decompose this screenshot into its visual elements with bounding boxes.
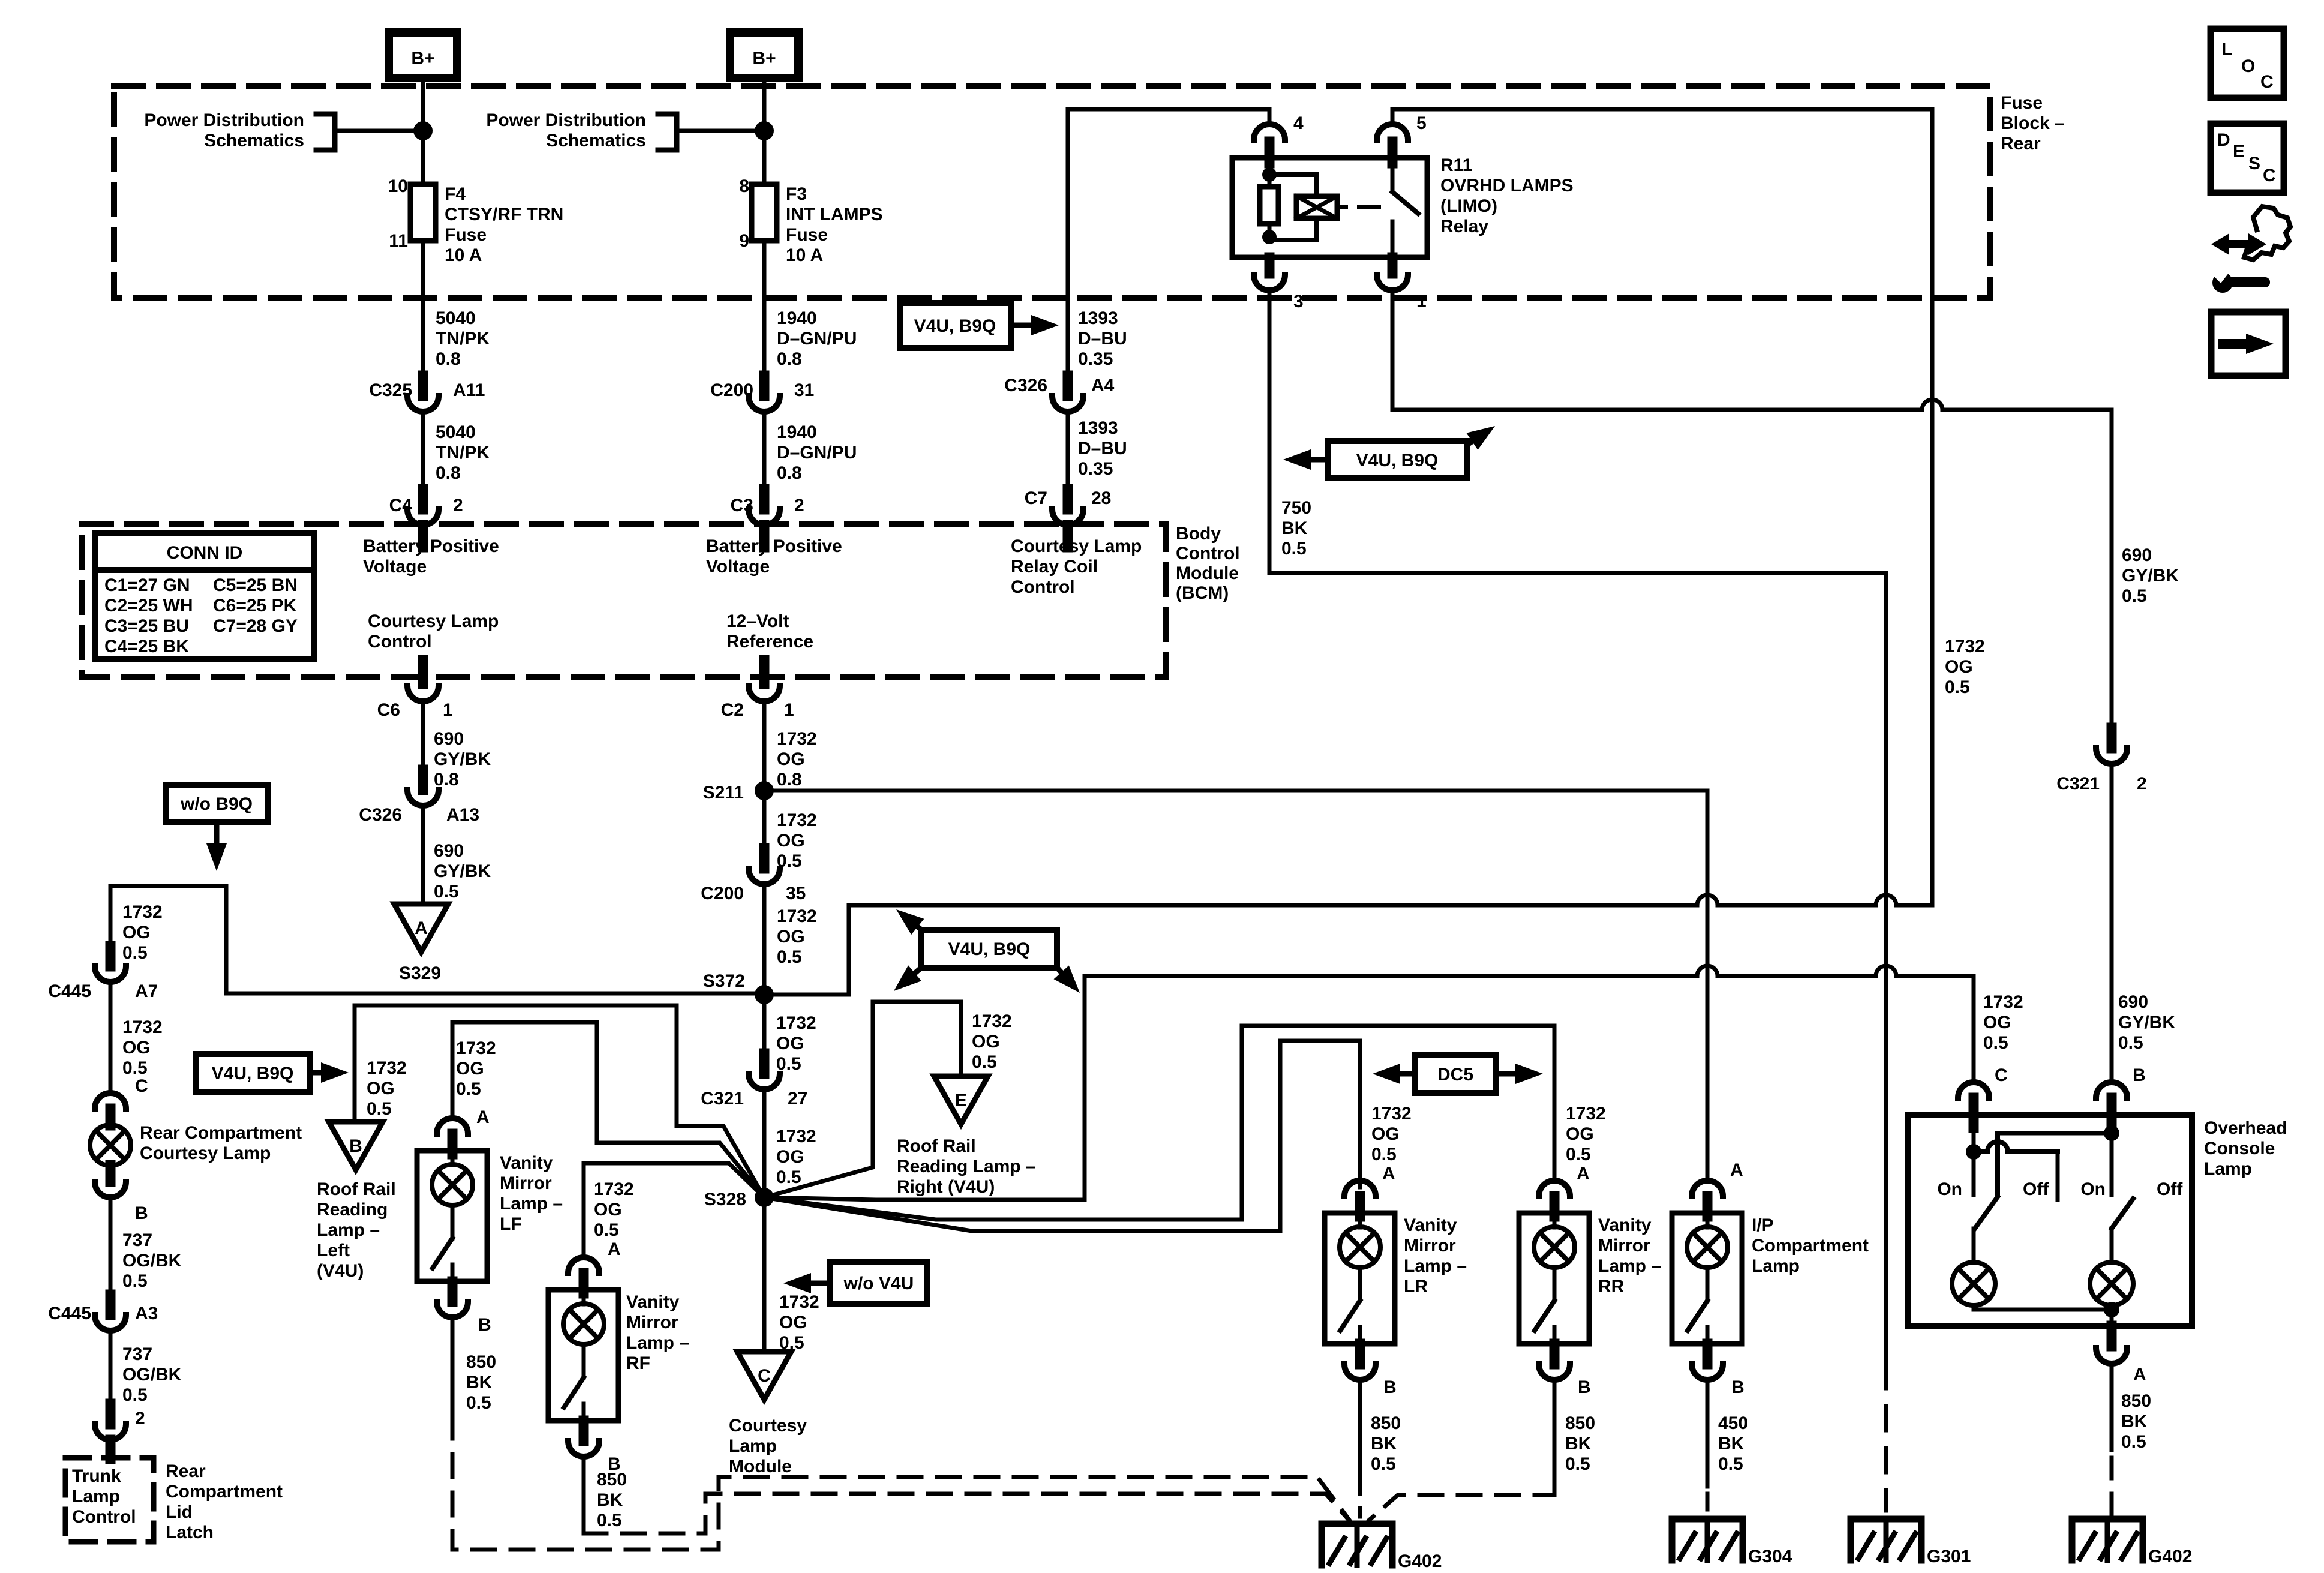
svg-text:850: 850 xyxy=(2121,1391,2151,1411)
page reference triangle B xyxy=(329,1122,383,1170)
wire 1732 OG 0.5 C321-S328 xyxy=(764,1089,816,1197)
svg-text:0.5: 0.5 xyxy=(1371,1145,1397,1164)
wire label I/P lamp pin A xyxy=(1730,1160,1743,1180)
svg-text:690: 690 xyxy=(434,841,464,861)
wire 1732 OG 0.5 C200-S372 xyxy=(764,884,817,995)
svg-text:C: C xyxy=(2260,72,2274,92)
svg-text:OG: OG xyxy=(456,1059,484,1079)
wire 1940 D-GN/PU 0.8 lower xyxy=(764,412,857,489)
BCM pin labels xyxy=(363,536,1142,652)
svg-text:0.5: 0.5 xyxy=(1281,539,1307,559)
svg-text:C321: C321 xyxy=(701,1089,744,1109)
svg-text:Reference: Reference xyxy=(726,632,813,652)
icon diagnostic wrench xyxy=(2211,206,2290,293)
wire S329 bus xyxy=(226,992,764,996)
roof rail reading lamp left label xyxy=(317,1179,396,1281)
wire label 1732 OG 0.5 vanity LR xyxy=(1371,1104,1412,1184)
console switch 2 xyxy=(2080,1179,2183,1262)
tag w/o V4U xyxy=(783,1262,927,1304)
svg-text:0.5: 0.5 xyxy=(1566,1145,1591,1164)
svg-text:850: 850 xyxy=(1371,1413,1401,1433)
svg-text:737: 737 xyxy=(122,1230,152,1250)
connector C445 pin A7 xyxy=(48,946,158,1001)
svg-text:35: 35 xyxy=(786,884,806,903)
svg-text:Module: Module xyxy=(729,1457,792,1476)
svg-text:5: 5 xyxy=(1416,113,1427,133)
svg-text:Schematics: Schematics xyxy=(204,131,304,151)
svg-text:1732: 1732 xyxy=(122,902,163,922)
svg-text:0.8: 0.8 xyxy=(777,463,802,483)
svg-text:Roof Rail: Roof Rail xyxy=(317,1179,396,1199)
svg-text:S329: S329 xyxy=(399,963,441,983)
svg-text:0.8: 0.8 xyxy=(436,349,461,369)
svg-text:C6: C6 xyxy=(377,700,400,720)
svg-text:A: A xyxy=(1382,1164,1395,1184)
svg-text:0.35: 0.35 xyxy=(1078,459,1113,479)
connector vanity RF pin B xyxy=(568,1421,621,1474)
ground G402 left xyxy=(1322,1524,1442,1571)
connector vanity RR pin B xyxy=(1539,1344,1591,1397)
svg-text:LR: LR xyxy=(1404,1277,1428,1296)
svg-text:Mirror: Mirror xyxy=(500,1173,552,1193)
svg-text:850: 850 xyxy=(466,1352,496,1372)
wire S328 to roof rail reading lamp right xyxy=(764,1002,1012,1197)
svg-text:Courtesy Lamp: Courtesy Lamp xyxy=(368,611,499,631)
svg-text:12–Volt: 12–Volt xyxy=(726,611,789,631)
wire 1732 OG S328 to vanity mirror LF xyxy=(452,1022,764,1197)
svg-text:0.5: 0.5 xyxy=(594,1220,619,1240)
connector C326 pin A13 xyxy=(359,770,479,825)
page reference triangle A xyxy=(394,904,448,952)
svg-text:A: A xyxy=(608,1239,621,1259)
svg-text:0.5: 0.5 xyxy=(466,1393,491,1413)
console pin B xyxy=(2096,1065,2146,1128)
svg-text:0.5: 0.5 xyxy=(776,1167,801,1187)
connector C321 pin 27 xyxy=(701,1053,807,1109)
svg-text:S: S xyxy=(2248,154,2260,173)
connector C2 pin 1 xyxy=(721,686,794,720)
svg-text:Battery Positive: Battery Positive xyxy=(363,536,499,556)
svg-text:0.8: 0.8 xyxy=(777,349,802,369)
svg-text:Off: Off xyxy=(2157,1179,2183,1199)
svg-text:OG: OG xyxy=(777,749,805,769)
svg-text:L: L xyxy=(2221,40,2232,59)
svg-text:B: B xyxy=(135,1203,148,1223)
svg-text:10 A: 10 A xyxy=(445,245,482,265)
svg-text:A11: A11 xyxy=(453,380,485,400)
svg-text:B: B xyxy=(1383,1377,1397,1397)
svg-text:Off: Off xyxy=(2023,1179,2049,1199)
wire 5040 TN/PK 0.8 upper xyxy=(423,241,490,376)
svg-text:Power Distribution: Power Distribution xyxy=(486,110,646,130)
connector C325 pin A11 xyxy=(369,376,485,412)
svg-text:Relay Coil: Relay Coil xyxy=(1011,557,1098,577)
svg-text:TN/PK: TN/PK xyxy=(436,443,490,463)
page reference triangle E xyxy=(934,1076,988,1124)
svg-text:E: E xyxy=(2233,142,2245,161)
svg-text:10 A: 10 A xyxy=(786,245,823,265)
relay pin 3 xyxy=(1254,257,1304,311)
connector vanity LF pin B xyxy=(437,1281,491,1335)
node power distribution 1 xyxy=(144,110,433,151)
svg-text:RR: RR xyxy=(1598,1277,1625,1296)
body control module BCM outline xyxy=(82,524,1240,677)
svg-text:C3: C3 xyxy=(731,496,753,515)
svg-text:Reading Lamp –: Reading Lamp – xyxy=(897,1157,1036,1176)
svg-text:Power Distribution: Power Distribution xyxy=(144,110,304,130)
icon LOC box xyxy=(2211,29,2284,98)
relay R11 OVRHD LAMPS (LIMO) xyxy=(1232,155,1574,257)
svg-text:690: 690 xyxy=(2118,992,2148,1012)
node power distribution 2 xyxy=(486,110,774,151)
wire S372 feed loop to relay pin5 line xyxy=(764,895,1932,995)
svg-text:Roof Rail: Roof Rail xyxy=(897,1136,976,1156)
wire label 1732 OG 0.5 vanity LF xyxy=(456,1038,496,1127)
wire 1732 OG 0.5 S372-C321 xyxy=(764,995,816,1074)
svg-text:Body: Body xyxy=(1176,524,1221,544)
I/P compartment lamp xyxy=(1672,1181,1869,1344)
svg-text:1940: 1940 xyxy=(777,308,817,328)
tag w/o B9Q xyxy=(166,785,268,871)
svg-text:1: 1 xyxy=(1416,292,1427,311)
svg-text:C325: C325 xyxy=(369,380,412,400)
connector C3 pin 2 xyxy=(731,489,804,525)
svg-text:BK: BK xyxy=(1371,1434,1397,1454)
svg-text:(LIMO): (LIMO) xyxy=(1440,196,1497,216)
wire into BCM battery positive 1 xyxy=(418,525,428,547)
wire 1940 D-GN/PU 0.8 upper xyxy=(764,241,857,376)
wire 850 BK 0.5 vanity LR xyxy=(1360,1380,1401,1517)
svg-text:On: On xyxy=(2080,1179,2106,1199)
svg-text:1393: 1393 xyxy=(1078,418,1118,438)
svg-text:C2: C2 xyxy=(721,700,744,720)
wire 850 BK 0.5 vanity LF xyxy=(452,1317,496,1416)
svg-text:A: A xyxy=(415,918,428,938)
svg-text:INT LAMPS: INT LAMPS xyxy=(786,205,883,224)
svg-text:OG: OG xyxy=(122,923,151,942)
svg-text:B+: B+ xyxy=(411,49,434,68)
svg-text:Rear: Rear xyxy=(166,1461,206,1481)
wire fuse block to relay pin 4 xyxy=(1068,109,1269,376)
wire 1732 OG S328 to vanity mirror RF xyxy=(584,1163,764,1257)
console lamp 1 xyxy=(1952,1262,1995,1310)
wire G301 drop xyxy=(1884,573,1888,1511)
wire label 1732 OG 0.5 to module xyxy=(779,1292,819,1353)
courtesy lamp module label xyxy=(729,1416,807,1476)
svg-text:GY/BK: GY/BK xyxy=(2118,1013,2175,1032)
svg-text:C445: C445 xyxy=(48,1304,91,1323)
relay pin 5 xyxy=(1377,109,1427,163)
svg-text:C5=25 BN: C5=25 BN xyxy=(213,575,298,595)
svg-text:Fuse: Fuse xyxy=(445,225,487,245)
svg-text:1: 1 xyxy=(443,700,453,720)
svg-text:O: O xyxy=(2241,56,2255,76)
wire label 1732 OG 0.5 vanity RF xyxy=(594,1179,634,1259)
svg-text:Control: Control xyxy=(72,1507,136,1527)
svg-text:BK: BK xyxy=(597,1490,623,1510)
svg-text:1732: 1732 xyxy=(122,1017,163,1037)
svg-text:Relay: Relay xyxy=(1440,217,1488,236)
wire 690 GY/BK 0.5 to console pin B xyxy=(2112,764,2175,1083)
svg-text:C: C xyxy=(758,1366,771,1386)
svg-text:2: 2 xyxy=(794,496,804,515)
svg-text:1393: 1393 xyxy=(1078,308,1118,328)
svg-text:Module: Module xyxy=(1176,563,1239,583)
svg-text:Lamp: Lamp xyxy=(729,1436,777,1456)
wire 737 OG/BK 0.5 lower xyxy=(110,1331,182,1428)
svg-text:D–BU: D–BU xyxy=(1078,439,1127,458)
svg-text:D–BU: D–BU xyxy=(1078,329,1127,349)
svg-text:C: C xyxy=(135,1076,148,1096)
wire vanity RF ground run dashed xyxy=(584,1494,1352,1533)
svg-text:0.5: 0.5 xyxy=(122,1271,148,1291)
svg-text:GY/BK: GY/BK xyxy=(434,749,491,769)
svg-text:GY/BK: GY/BK xyxy=(2122,566,2179,586)
svg-text:BK: BK xyxy=(1281,518,1308,538)
connector C200 pin 31 xyxy=(710,376,814,412)
svg-text:1732: 1732 xyxy=(1945,637,1985,656)
svg-text:C200: C200 xyxy=(710,380,753,400)
svg-text:V4U, B9Q: V4U, B9Q xyxy=(1356,451,1439,470)
svg-text:0.5: 0.5 xyxy=(367,1099,392,1119)
svg-text:C: C xyxy=(2263,166,2276,185)
svg-text:RF: RF xyxy=(626,1353,650,1373)
svg-text:A: A xyxy=(2133,1365,2146,1385)
svg-text:B: B xyxy=(1578,1377,1591,1397)
tag V4U,B9Q roof rail left xyxy=(196,1054,349,1092)
svg-text:A4: A4 xyxy=(1091,376,1115,395)
svg-text:C7: C7 xyxy=(1025,488,1047,508)
svg-text:1732: 1732 xyxy=(594,1179,634,1199)
svg-text:Trunk: Trunk xyxy=(72,1466,121,1486)
svg-text:1732: 1732 xyxy=(972,1011,1012,1031)
svg-text:10: 10 xyxy=(388,176,408,196)
svg-text:Lamp: Lamp xyxy=(72,1487,120,1506)
svg-text:B: B xyxy=(2133,1065,2146,1085)
wire 1732 OG relay pin5 run xyxy=(1392,109,1985,905)
svg-text:750: 750 xyxy=(1281,498,1311,518)
wire B+2 to fuse F3 xyxy=(762,78,767,184)
svg-text:F3: F3 xyxy=(786,184,807,204)
svg-text:Console: Console xyxy=(2204,1139,2275,1158)
svg-text:OG: OG xyxy=(777,927,805,947)
svg-text:S328: S328 xyxy=(704,1190,746,1209)
svg-text:Courtesy Lamp: Courtesy Lamp xyxy=(1011,536,1142,556)
svg-text:B+: B+ xyxy=(752,49,776,68)
svg-text:BK: BK xyxy=(1718,1434,1744,1454)
svg-text:BK: BK xyxy=(466,1373,493,1392)
wire 1393 D-BU 0.35 lower xyxy=(1068,412,1127,489)
svg-text:OG: OG xyxy=(1371,1124,1400,1144)
svg-text:C3=25 BU: C3=25 BU xyxy=(104,616,189,636)
power terminal B+ 2 xyxy=(730,32,798,78)
svg-text:3: 3 xyxy=(1293,292,1304,311)
svg-text:Mirror: Mirror xyxy=(626,1313,678,1332)
svg-text:C6=25 PK: C6=25 PK xyxy=(213,596,297,616)
svg-text:1732: 1732 xyxy=(1983,992,2023,1012)
wire 1732 OG 0.5 to C445 A7 xyxy=(110,886,226,993)
svg-text:Right (V4U): Right (V4U) xyxy=(897,1177,995,1197)
svg-text:Vanity: Vanity xyxy=(1404,1215,1457,1235)
svg-text:Vanity: Vanity xyxy=(626,1292,680,1312)
svg-text:Latch: Latch xyxy=(166,1523,214,1542)
svg-text:D–GN/PU: D–GN/PU xyxy=(777,443,857,463)
vanity mirror lamp RR xyxy=(1519,1181,1661,1344)
svg-text:A3: A3 xyxy=(135,1304,158,1323)
svg-text:OG: OG xyxy=(1945,657,1973,677)
fuse F4 xyxy=(388,176,564,265)
connector I/P lamp pin B xyxy=(1692,1344,1744,1397)
wire 1732 OG 0.8 xyxy=(764,701,817,791)
tag V4U,B9Q wire 1393 xyxy=(900,303,1059,348)
svg-text:0.5: 0.5 xyxy=(1565,1454,1590,1474)
svg-text:Block –: Block – xyxy=(2001,113,2065,133)
vanity mirror lamp LF xyxy=(417,1118,563,1281)
svg-text:Schematics: Schematics xyxy=(546,131,646,151)
connector trunk latch pin 2 xyxy=(95,1404,126,1459)
svg-text:Voltage: Voltage xyxy=(363,557,427,577)
svg-text:1940: 1940 xyxy=(777,422,817,442)
svg-text:Control: Control xyxy=(1011,577,1075,597)
svg-text:w/o B9Q: w/o B9Q xyxy=(180,794,253,814)
svg-text:C7=28 GY: C7=28 GY xyxy=(213,616,298,636)
svg-text:B: B xyxy=(478,1315,491,1335)
svg-text:w/o V4U: w/o V4U xyxy=(843,1274,914,1293)
svg-text:450: 450 xyxy=(1718,1413,1748,1433)
connector C7 pin 28 xyxy=(1025,488,1112,525)
wire label 1393 D-BU 0.35 upper xyxy=(1078,308,1127,369)
svg-text:0.5: 0.5 xyxy=(972,1052,997,1072)
CONN ID table xyxy=(95,533,314,659)
svg-text:Lid: Lid xyxy=(166,1502,193,1522)
page reference triangle C xyxy=(737,1352,791,1400)
svg-text:1732: 1732 xyxy=(1566,1104,1606,1124)
svg-text:850: 850 xyxy=(597,1470,627,1490)
wire 690 GY/BK relay pin1 to overhead console xyxy=(1392,290,2179,728)
wire label 1732 OG 0.5 vanity RR xyxy=(1566,1104,1606,1184)
wire into BCM battery positive 2 xyxy=(759,525,770,547)
wire 1732 OG 0.5 to lamp pin C xyxy=(110,982,163,1096)
svg-text:8: 8 xyxy=(739,176,749,196)
svg-text:OG: OG xyxy=(972,1032,1000,1052)
wire 850 BK 0.5 console to G402 xyxy=(2112,1364,2151,1517)
fuse block rear outline xyxy=(114,86,2065,298)
svg-text:D: D xyxy=(2217,130,2230,150)
svg-text:(BCM): (BCM) xyxy=(1176,583,1229,603)
svg-text:V4U, B9Q: V4U, B9Q xyxy=(948,939,1031,959)
svg-text:A13: A13 xyxy=(446,805,479,825)
roof rail reading lamp right label xyxy=(897,1136,1036,1197)
svg-text:F4: F4 xyxy=(445,184,466,204)
svg-text:A: A xyxy=(1730,1160,1743,1180)
svg-text:0.8: 0.8 xyxy=(436,463,461,483)
svg-text:2: 2 xyxy=(135,1409,145,1428)
relay pin 1 xyxy=(1377,257,1427,311)
svg-text:C321: C321 xyxy=(2056,774,2100,794)
svg-text:Lamp: Lamp xyxy=(1752,1256,1800,1276)
connector vanity LR pin B xyxy=(1344,1344,1397,1397)
svg-text:R11: R11 xyxy=(1440,155,1472,175)
svg-text:C4: C4 xyxy=(389,496,413,515)
svg-text:B: B xyxy=(349,1136,362,1156)
svg-text:Lamp: Lamp xyxy=(2204,1159,2252,1179)
tag V4U,B9Q splice region xyxy=(894,909,1080,993)
splice S329 label xyxy=(399,963,441,983)
wire 690 GY/BK 0.8 xyxy=(423,701,491,789)
svg-text:0.5: 0.5 xyxy=(456,1079,481,1099)
svg-text:Reading: Reading xyxy=(317,1200,388,1220)
svg-text:0.5: 0.5 xyxy=(1718,1454,1743,1474)
svg-text:G402: G402 xyxy=(2148,1547,2192,1566)
svg-text:Lamp –: Lamp – xyxy=(1598,1256,1661,1276)
connector C326 pin A4 xyxy=(1004,376,1114,412)
svg-text:1732: 1732 xyxy=(776,1127,816,1146)
vanity mirror lamp RF xyxy=(548,1257,689,1421)
svg-text:LF: LF xyxy=(500,1214,522,1234)
svg-text:CONN ID: CONN ID xyxy=(167,543,243,563)
svg-text:1732: 1732 xyxy=(779,1292,819,1312)
wire 450 BK 0.5 xyxy=(1707,1380,1748,1517)
svg-text:(V4U): (V4U) xyxy=(317,1261,364,1281)
svg-text:0.35: 0.35 xyxy=(1078,349,1113,369)
svg-text:1732: 1732 xyxy=(777,906,817,926)
svg-text:0.5: 0.5 xyxy=(2118,1033,2143,1053)
wire label 1732 OG 0.5 roof rail left xyxy=(367,1058,407,1119)
svg-text:1732: 1732 xyxy=(776,1013,816,1033)
svg-text:C: C xyxy=(1995,1065,2008,1085)
svg-text:OG: OG xyxy=(777,831,805,851)
svg-text:I/P: I/P xyxy=(1752,1215,1774,1235)
wire BCM courtesy lamp control out xyxy=(418,660,428,684)
svg-text:2: 2 xyxy=(453,496,463,515)
svg-text:Control: Control xyxy=(1176,544,1240,563)
svg-text:C326: C326 xyxy=(359,805,402,825)
connector C6 pin 1 xyxy=(377,686,453,720)
svg-text:Vanity: Vanity xyxy=(500,1153,553,1173)
wire 750 BK 0.5 relay pin3 to G301 xyxy=(1269,290,1886,573)
console lamp 2 xyxy=(2090,1262,2133,1310)
svg-text:E: E xyxy=(955,1091,967,1110)
svg-text:2: 2 xyxy=(2137,774,2147,794)
ground G402 right xyxy=(2072,1519,2192,1566)
svg-text:A: A xyxy=(1577,1164,1590,1184)
svg-text:DC5: DC5 xyxy=(1437,1065,1473,1085)
icon forward arrow box xyxy=(2211,312,2286,376)
overhead console lamp outline xyxy=(1908,1115,2287,1326)
svg-text:0.5: 0.5 xyxy=(122,1385,148,1405)
svg-text:Mirror: Mirror xyxy=(1598,1236,1650,1256)
svg-text:OG: OG xyxy=(1566,1124,1594,1144)
svg-text:A: A xyxy=(476,1107,490,1127)
svg-text:0.5: 0.5 xyxy=(2121,1432,2146,1452)
splice S211 xyxy=(703,781,774,803)
wire 1732 OG S328 to vanity mirror RR xyxy=(764,1026,1554,1220)
svg-text:9: 9 xyxy=(739,231,749,251)
wire vanity LF ground run dashed xyxy=(452,1416,1349,1550)
svg-text:V4U, B9Q: V4U, B9Q xyxy=(914,316,996,336)
svg-text:0.5: 0.5 xyxy=(777,947,802,967)
svg-text:OVRHD LAMPS: OVRHD LAMPS xyxy=(1440,176,1574,196)
svg-text:28: 28 xyxy=(1091,488,1111,508)
svg-text:C4=25 BK: C4=25 BK xyxy=(104,637,189,656)
svg-text:Courtesy: Courtesy xyxy=(729,1416,807,1436)
svg-text:Lamp –: Lamp – xyxy=(500,1194,563,1214)
svg-text:S372: S372 xyxy=(703,971,745,991)
svg-text:27: 27 xyxy=(788,1089,807,1109)
wire 850 BK 0.5 vanity RF xyxy=(584,1457,627,1533)
svg-text:BK: BK xyxy=(1565,1434,1592,1454)
wire 690 GY/BK 0.5 to S329 xyxy=(423,806,491,904)
